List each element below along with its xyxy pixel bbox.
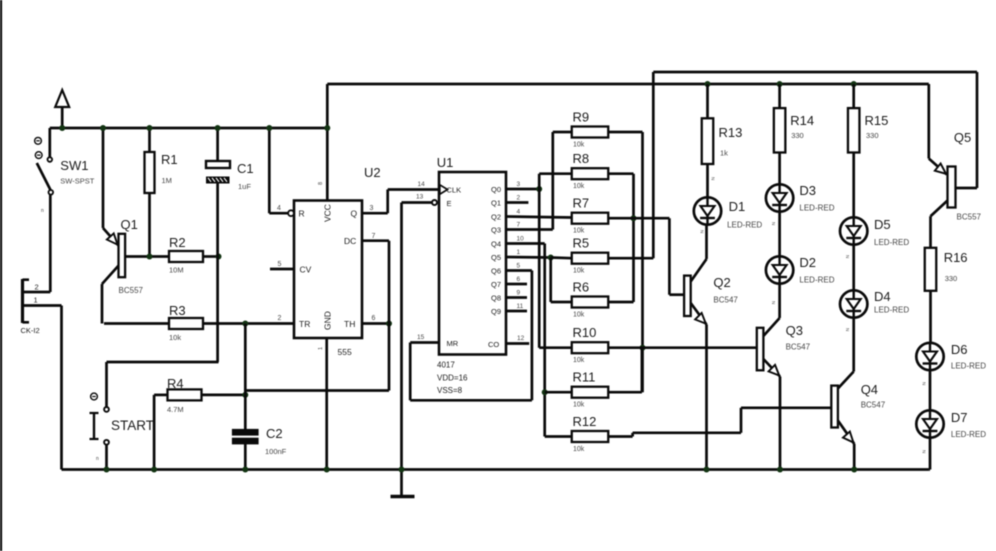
svg-text:13: 13 [416, 194, 424, 201]
svg-text:330: 330 [945, 274, 958, 283]
svg-text:5: 5 [278, 261, 282, 268]
svg-text:Q3: Q3 [786, 323, 803, 338]
svg-text:4: 4 [277, 205, 281, 212]
svg-text:7: 7 [517, 222, 521, 229]
svg-text:C1: C1 [237, 161, 254, 176]
svg-text:R16: R16 [944, 250, 968, 265]
svg-text:R12: R12 [573, 414, 597, 429]
svg-text:2: 2 [278, 315, 282, 322]
svg-text:1k: 1k [720, 149, 728, 158]
svg-text:D5: D5 [874, 217, 891, 232]
svg-text:N: N [771, 222, 776, 225]
svg-text:U2: U2 [364, 165, 381, 180]
svg-text:1: 1 [318, 347, 324, 350]
svg-text:10k: 10k [573, 183, 585, 190]
svg-text:10k: 10k [573, 402, 585, 409]
svg-text:N: N [922, 382, 927, 385]
svg-text:D6: D6 [951, 342, 968, 357]
svg-text:10k: 10k [573, 268, 585, 275]
svg-text:N: N [771, 301, 776, 304]
svg-text:2: 2 [517, 195, 521, 202]
svg-text:LED-RED: LED-RED [874, 238, 909, 247]
svg-text:BC547: BC547 [713, 296, 738, 305]
svg-text:U1: U1 [437, 155, 454, 170]
svg-text:CK-I2: CK-I2 [21, 326, 40, 335]
svg-text:BC547: BC547 [861, 401, 886, 410]
svg-text:100nF: 100nF [265, 447, 287, 456]
svg-text:14: 14 [418, 181, 426, 188]
svg-text:TH: TH [344, 319, 355, 329]
svg-text:1uF: 1uF [238, 182, 251, 191]
svg-text:R15: R15 [865, 113, 889, 128]
svg-text:LED-RED: LED-RED [874, 306, 909, 315]
svg-text:R: R [299, 209, 305, 219]
svg-text:R7: R7 [573, 196, 590, 211]
svg-text:N: N [711, 177, 716, 180]
svg-text:3: 3 [517, 181, 521, 188]
svg-text:SW1: SW1 [60, 158, 88, 173]
svg-text:Q2: Q2 [713, 275, 730, 290]
svg-text:Q2: Q2 [491, 213, 501, 222]
svg-text:SW-SPST: SW-SPST [60, 177, 94, 186]
svg-text:R9: R9 [573, 110, 590, 125]
svg-text:R8: R8 [573, 151, 590, 166]
svg-text:Q5: Q5 [491, 253, 501, 262]
svg-text:D1: D1 [729, 199, 746, 214]
svg-text:LED-RED: LED-RED [727, 221, 762, 230]
svg-text:9: 9 [517, 290, 521, 297]
svg-text:10k: 10k [573, 446, 585, 453]
svg-text:R13: R13 [719, 125, 743, 140]
svg-text:Q3: Q3 [491, 226, 501, 235]
svg-text:10k: 10k [573, 357, 585, 364]
svg-text:12: 12 [517, 335, 525, 342]
svg-text:555: 555 [338, 347, 352, 357]
svg-text:LED-RED: LED-RED [951, 430, 986, 439]
svg-text:CLK: CLK [447, 185, 462, 194]
svg-text:Q1: Q1 [121, 217, 138, 232]
svg-text:TR: TR [299, 319, 310, 329]
svg-text:CV: CV [300, 265, 312, 275]
svg-text:1M: 1M [162, 176, 172, 185]
svg-text:N: N [845, 255, 850, 258]
svg-text:N: N [922, 450, 927, 453]
svg-text:330: 330 [866, 131, 879, 140]
svg-text:C2: C2 [266, 426, 283, 441]
svg-text:START: START [111, 418, 154, 433]
svg-text:10k: 10k [573, 142, 585, 149]
svg-text:D3: D3 [799, 183, 816, 198]
svg-text:R6: R6 [573, 280, 590, 295]
svg-text:VCC: VCC [323, 204, 333, 222]
svg-text:Q6: Q6 [491, 267, 501, 276]
svg-text:6: 6 [372, 315, 376, 322]
svg-text:MR: MR [447, 339, 459, 348]
svg-text:10k: 10k [573, 228, 585, 235]
svg-text:10k: 10k [573, 312, 585, 319]
svg-text:Q4: Q4 [491, 240, 501, 249]
svg-text:VSS=8: VSS=8 [437, 386, 463, 395]
svg-text:4.7M: 4.7M [167, 405, 184, 414]
svg-text:Q4: Q4 [861, 382, 878, 397]
svg-text:VDD=16: VDD=16 [437, 374, 468, 383]
svg-text:10k: 10k [169, 333, 181, 342]
svg-text:R14: R14 [790, 113, 814, 128]
svg-text:6: 6 [517, 276, 521, 283]
svg-text:LED-RED: LED-RED [951, 362, 986, 371]
svg-text:R11: R11 [573, 370, 596, 385]
svg-text:8: 8 [318, 182, 324, 185]
svg-text:3: 3 [370, 205, 374, 212]
svg-text:Q7: Q7 [491, 280, 501, 289]
svg-text:CO: CO [488, 340, 499, 349]
svg-text:BC557: BC557 [957, 213, 982, 222]
svg-text:R4: R4 [167, 376, 184, 391]
svg-text:LED-RED: LED-RED [799, 276, 834, 285]
svg-text:11: 11 [517, 303, 524, 310]
svg-text:R10: R10 [573, 325, 597, 340]
svg-text:Q9: Q9 [491, 307, 501, 316]
svg-text:7: 7 [372, 233, 376, 240]
svg-text:5: 5 [517, 263, 521, 270]
svg-text:Q5: Q5 [954, 130, 971, 145]
svg-text:10: 10 [517, 236, 525, 243]
svg-text:D2: D2 [799, 255, 816, 270]
svg-text:BC547: BC547 [786, 343, 811, 352]
svg-text:R5: R5 [573, 236, 590, 251]
svg-text:D4: D4 [874, 289, 891, 304]
svg-text:R1: R1 [161, 152, 178, 167]
svg-text:15: 15 [417, 334, 425, 341]
svg-text:Q0: Q0 [491, 185, 501, 194]
svg-text:E: E [447, 199, 452, 208]
svg-text:1: 1 [34, 296, 38, 305]
svg-text:BC557: BC557 [119, 286, 144, 295]
svg-text:LED-RED: LED-RED [799, 204, 834, 213]
svg-text:4: 4 [517, 209, 521, 216]
svg-text:330: 330 [791, 131, 804, 140]
svg-text:GND: GND [323, 311, 333, 330]
svg-text:2: 2 [35, 283, 39, 292]
svg-text:DC: DC [344, 236, 356, 246]
svg-text:N: N [700, 230, 705, 233]
svg-text:N: N [845, 328, 850, 331]
svg-text:R3: R3 [169, 303, 186, 318]
svg-text:Q8: Q8 [491, 294, 501, 303]
svg-text:R2: R2 [169, 235, 186, 250]
svg-text:10M: 10M [169, 266, 184, 275]
svg-text:n: n [41, 208, 44, 214]
svg-text:4017: 4017 [437, 361, 455, 370]
svg-text:n: n [96, 456, 99, 462]
svg-text:D7: D7 [951, 410, 968, 425]
svg-text:Q1: Q1 [491, 199, 501, 208]
svg-text:Q: Q [351, 209, 358, 219]
svg-text:1: 1 [517, 249, 521, 256]
